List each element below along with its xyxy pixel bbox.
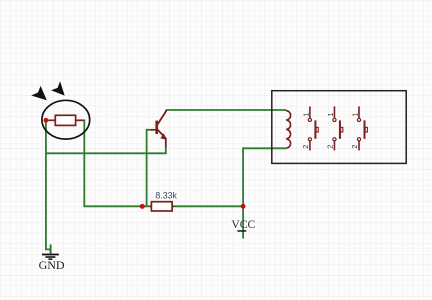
svg-text:2: 2 [301,145,310,149]
svg-text:1: 1 [301,113,310,117]
svg-text:8.33k: 8.33k [155,190,177,200]
svg-text:GND: GND [39,258,65,272]
svg-text:VCC: VCC [231,218,255,231]
